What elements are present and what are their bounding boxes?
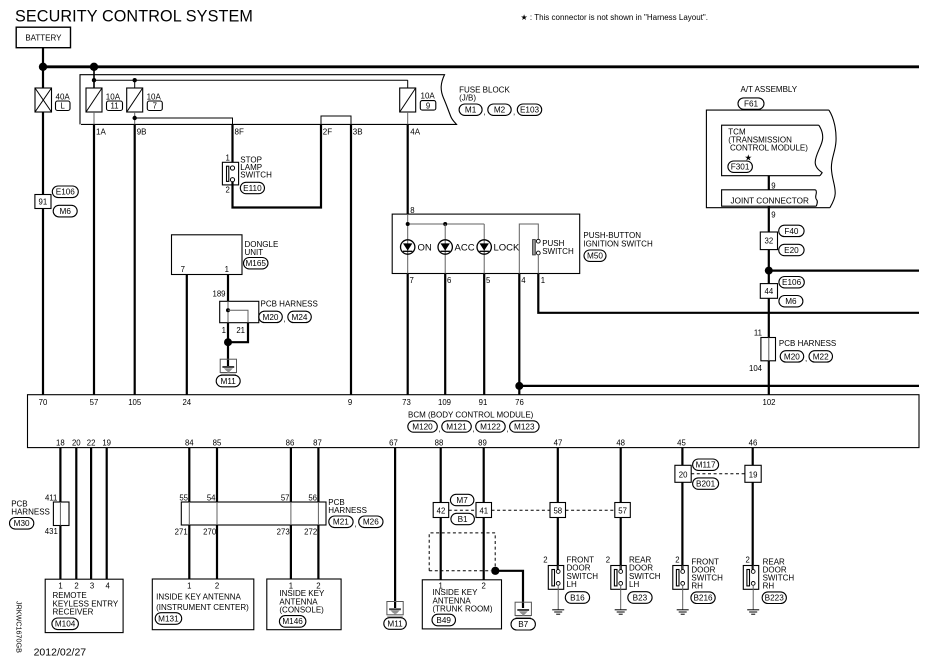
- svg-text:B23: B23: [633, 593, 648, 602]
- connector M2: [488, 104, 511, 115]
- connector F61: [738, 98, 764, 109]
- inside key antenna trunk room B49: [422, 580, 501, 629]
- svg-text:41: 41: [479, 507, 488, 516]
- wire fuse feed drop into block: [93, 67, 95, 88]
- svg-text:9: 9: [771, 181, 775, 190]
- svg-text:11: 11: [110, 102, 118, 111]
- connectors M120 M121 M122 M123: [408, 421, 438, 432]
- svg-text:1: 1: [222, 326, 226, 335]
- svg-text:7: 7: [410, 276, 414, 285]
- remote keyless entry receiver M104: [45, 579, 123, 632]
- svg-text:2: 2: [215, 581, 219, 590]
- svg-text:7: 7: [181, 265, 185, 274]
- svg-text:F40: F40: [784, 227, 799, 236]
- wire shield to ground B7: [495, 571, 523, 608]
- svg-text:M6: M6: [60, 207, 72, 216]
- wire pin6 to BCM 109: [444, 274, 446, 395]
- svg-text:SWITCH: SWITCH: [240, 170, 272, 179]
- svg-text:A/T ASSEMBLY: A/T ASSEMBLY: [741, 85, 798, 94]
- svg-text:M123: M123: [514, 422, 535, 431]
- svg-text:20: 20: [679, 470, 688, 479]
- wire dongle pin1 to pcb harness: [227, 275, 229, 302]
- wire pcb pin1 down: [227, 323, 229, 343]
- svg-text:46: 46: [749, 438, 758, 447]
- pcb harness M20 M24: [220, 299, 318, 323]
- svg-text:11: 11: [754, 329, 762, 338]
- connector 57: [615, 503, 631, 518]
- dongle unit M165: [172, 235, 279, 275]
- svg-text:M30: M30: [14, 519, 30, 528]
- svg-text:M1: M1: [465, 106, 477, 115]
- svg-text:,: ,: [513, 108, 515, 117]
- node junction battery-fusible: [39, 63, 47, 71]
- connector F301: [728, 161, 753, 172]
- wire battery feed horizontal: [43, 65, 919, 68]
- indicator ON: [401, 240, 415, 254]
- connector 19: [745, 465, 761, 482]
- svg-text:9: 9: [348, 398, 352, 407]
- svg-text:M121: M121: [446, 422, 467, 431]
- connector B1: [451, 513, 475, 524]
- svg-text:48: 48: [616, 438, 625, 447]
- svg-text:(CONSOLE): (CONSOLE): [279, 606, 324, 615]
- wire stop lamp switch to 2F: [233, 124, 322, 207]
- svg-text:PCB HARNESS: PCB HARNESS: [261, 299, 318, 308]
- wire BCM 67 to ground: [394, 448, 396, 608]
- svg-text:57: 57: [618, 507, 627, 516]
- svg-text:M24: M24: [292, 313, 308, 322]
- connector 42: [433, 503, 449, 518]
- wire bus to fuse 7 top: [134, 80, 136, 88]
- svg-text:9: 9: [771, 210, 775, 219]
- svg-text:E103: E103: [520, 106, 540, 115]
- wire BCM 47 to connector 58: [557, 448, 559, 503]
- wire 44 to pcb harness: [768, 298, 770, 337]
- svg-text:104: 104: [749, 364, 763, 373]
- dashed link 41-58: [492, 509, 551, 511]
- svg-text:2: 2: [543, 556, 547, 565]
- svg-text:B223: B223: [765, 594, 785, 603]
- svg-text:JRKWC1670GB: JRKWC1670GB: [15, 601, 24, 653]
- svg-text:,: ,: [484, 108, 486, 117]
- wire pin7 to BCM 73: [407, 274, 409, 395]
- svg-text:IGNITION SWITCH: IGNITION SWITCH: [583, 240, 653, 249]
- wire pin1 down: [538, 274, 919, 313]
- svg-text:1: 1: [187, 581, 191, 590]
- inside key antenna console M146: [267, 579, 341, 630]
- svg-text:F61: F61: [744, 100, 759, 109]
- svg-text:47: 47: [554, 438, 563, 447]
- wire BCM 45 to connector 20: [681, 448, 683, 466]
- wire bus to fuse 9 top: [407, 80, 409, 88]
- wire fuse 11 out: [93, 112, 95, 124]
- wire BCM 18 to pcb harness M30: [59, 448, 61, 502]
- node junction pin4 line: [515, 382, 523, 390]
- dashed link 20-19: [691, 473, 745, 475]
- svg-text:24: 24: [182, 398, 191, 407]
- ground M11 (BCM 67): [384, 602, 407, 630]
- svg-text:10A: 10A: [106, 92, 121, 101]
- wire pcb harness to BCM 102: [768, 361, 770, 395]
- svg-text:22: 22: [87, 438, 96, 447]
- joint connector: [722, 190, 818, 206]
- svg-text:10A: 10A: [147, 92, 162, 101]
- svg-text:M11: M11: [387, 619, 403, 628]
- svg-text:INSIDE KEY ANTENNA: INSIDE KEY ANTENNA: [156, 592, 241, 601]
- svg-text:8: 8: [410, 206, 414, 215]
- wire battery drop: [42, 48, 44, 88]
- svg-text:56: 56: [308, 493, 317, 502]
- wire 57 to rear door switch LH: [620, 518, 622, 570]
- svg-text:1: 1: [225, 265, 229, 274]
- svg-text:B49: B49: [436, 616, 451, 625]
- fuse 10A 11: [86, 88, 123, 112]
- node bus dot fuse 11: [92, 78, 96, 82]
- svg-text:(J/B): (J/B): [459, 94, 476, 103]
- svg-text:2: 2: [746, 556, 750, 565]
- wire 8F to stop lamp switch: [231, 124, 233, 166]
- svg-text:M7: M7: [456, 496, 468, 505]
- wire joint connector to 32: [768, 206, 770, 232]
- svg-text:55: 55: [179, 493, 188, 502]
- wire to ground M11: [227, 342, 229, 366]
- stop lamp switch E110: [222, 153, 272, 194]
- svg-text:M20: M20: [784, 352, 800, 361]
- svg-text:M104: M104: [55, 620, 76, 629]
- wire M30 to RKE pin 1: [59, 526, 61, 580]
- svg-text:88: 88: [435, 438, 444, 447]
- wire fuse bus inside block: [94, 79, 408, 81]
- svg-text:57: 57: [281, 493, 290, 502]
- svg-text:HARNESS: HARNESS: [328, 506, 367, 515]
- svg-text:B216: B216: [693, 594, 713, 603]
- wire BCM 20 to RKE pin 2: [75, 448, 77, 580]
- svg-text:PCB HARNESS: PCB HARNESS: [779, 339, 836, 348]
- wire BCM 48 to connector 57: [620, 448, 622, 503]
- svg-text:32: 32: [765, 237, 774, 246]
- svg-text:189: 189: [212, 289, 225, 298]
- svg-text:87: 87: [313, 438, 322, 447]
- svg-text:SWITCH: SWITCH: [542, 247, 574, 256]
- svg-text:4A: 4A: [410, 127, 420, 136]
- svg-text:91: 91: [39, 198, 48, 207]
- wire 8F feed inside block: [135, 118, 233, 124]
- svg-text:,: ,: [506, 424, 508, 433]
- svg-text:2F: 2F: [323, 127, 332, 136]
- svg-text:LH: LH: [567, 580, 577, 589]
- node dot fuse 7 out: [133, 116, 137, 120]
- indicator ACC: [438, 240, 452, 254]
- svg-text:BCM (BODY CONTROL MODULE): BCM (BODY CONTROL MODULE): [408, 410, 534, 419]
- rear door switch LH B23: [606, 556, 661, 615]
- TCM box: [722, 125, 823, 176]
- svg-text:B1: B1: [458, 515, 468, 524]
- wire 58 to front door switch LH: [557, 518, 559, 570]
- wire dongle pin7 to BCM 24: [186, 275, 188, 395]
- pcb harness M20 M22: [761, 338, 836, 364]
- BCM body control module box: [28, 395, 920, 448]
- svg-text:M2: M2: [494, 106, 506, 115]
- svg-text:SECURITY CONTROL SYSTEM: SECURITY CONTROL SYSTEM: [15, 8, 253, 26]
- fusible link 40A L: [35, 88, 70, 112]
- svg-text:10A: 10A: [421, 91, 436, 100]
- svg-text:E106: E106: [782, 278, 802, 287]
- rear door switch RH B223: [743, 556, 794, 615]
- svg-text:BATTERY: BATTERY: [25, 33, 62, 42]
- svg-text:89: 89: [478, 438, 487, 447]
- wire BCM 87 to antenna: [317, 448, 319, 502]
- svg-text:2: 2: [482, 581, 486, 590]
- svg-text:LH: LH: [629, 580, 639, 589]
- svg-text:105: 105: [128, 398, 142, 407]
- svg-text:19: 19: [102, 438, 111, 447]
- svg-text:ACC: ACC: [455, 242, 475, 253]
- ground B7: [511, 602, 535, 630]
- svg-text:L: L: [61, 102, 66, 111]
- wire TCM branch right: [769, 270, 919, 272]
- dashed link 58-57: [566, 509, 615, 511]
- svg-text:E110: E110: [243, 184, 262, 193]
- wire 3B to BCM 9: [350, 124, 352, 394]
- svg-text:7: 7: [153, 102, 157, 111]
- push switch: [519, 224, 538, 274]
- svg-text:54: 54: [207, 493, 216, 502]
- svg-text:CONTROL MODULE): CONTROL MODULE): [730, 144, 808, 153]
- svg-text:70: 70: [39, 398, 48, 407]
- indicator LOCK: [477, 240, 491, 254]
- pcb harness M21 M26: [181, 498, 383, 529]
- svg-text:73: 73: [402, 398, 411, 407]
- wire connector 91 to BCM pin 70: [42, 209, 44, 395]
- svg-text:M120: M120: [412, 422, 433, 431]
- svg-text:4: 4: [106, 581, 111, 590]
- wire fuse 9 out: [407, 112, 409, 124]
- svg-text:271: 271: [175, 528, 188, 537]
- svg-text:2: 2: [606, 556, 610, 565]
- fuse 10A 7: [127, 88, 163, 112]
- svg-text:M6: M6: [785, 297, 797, 306]
- svg-text:M165: M165: [245, 259, 266, 268]
- svg-text:6: 6: [447, 276, 451, 285]
- svg-text:JOINT CONNECTOR: JOINT CONNECTOR: [731, 196, 809, 205]
- svg-text:8F: 8F: [235, 127, 244, 136]
- svg-text:M11: M11: [221, 377, 237, 386]
- svg-text:1: 1: [58, 581, 62, 590]
- svg-text:19: 19: [749, 470, 758, 479]
- svg-text:109: 109: [438, 398, 451, 407]
- svg-text:9: 9: [426, 101, 430, 110]
- svg-text:85: 85: [213, 438, 222, 447]
- svg-text:M20: M20: [263, 313, 279, 322]
- svg-text:2: 2: [675, 556, 679, 565]
- svg-text:273: 273: [277, 528, 290, 537]
- connector 58: [550, 503, 566, 518]
- node junction fuse feed: [90, 63, 98, 71]
- wire BCM 84 to antenna: [188, 448, 190, 502]
- svg-text:M21: M21: [333, 518, 349, 527]
- svg-text:57: 57: [90, 398, 99, 407]
- svg-text:M22: M22: [813, 352, 829, 361]
- svg-text:B201: B201: [696, 480, 716, 489]
- svg-text:4: 4: [521, 276, 526, 285]
- svg-text:M26: M26: [363, 518, 379, 527]
- wire pin5 to BCM 91: [483, 274, 485, 395]
- svg-text:91: 91: [479, 398, 488, 407]
- svg-text:411: 411: [45, 493, 57, 502]
- svg-text:9B: 9B: [137, 127, 147, 136]
- svg-text:3B: 3B: [353, 127, 363, 136]
- wire 42 to antenna pin1: [440, 518, 442, 580]
- svg-text:E106: E106: [56, 188, 76, 197]
- node junction dongle ground: [224, 338, 232, 346]
- svg-text:1: 1: [541, 276, 545, 285]
- svg-text:42: 42: [437, 507, 446, 516]
- wire BCM 89 to connector 41: [483, 448, 485, 503]
- svg-text:44: 44: [765, 287, 774, 296]
- connector 32 F40 E20: [760, 225, 804, 256]
- svg-text:M146: M146: [282, 617, 303, 626]
- connector B201: [693, 478, 719, 489]
- dashed link 42-41: [449, 509, 476, 511]
- wire BCM 46 to connector 19: [752, 448, 754, 466]
- connector E103: [517, 104, 541, 115]
- svg-text:18: 18: [56, 438, 65, 447]
- svg-text:(TRUNK ROOM): (TRUNK ROOM): [433, 605, 493, 614]
- svg-text:40A: 40A: [56, 92, 71, 101]
- wire 32 to 44: [768, 250, 770, 284]
- svg-text:F301: F301: [731, 163, 750, 172]
- connector 44 E106 M6: [760, 277, 804, 307]
- svg-text:,: ,: [284, 315, 286, 324]
- svg-text:3: 3: [90, 581, 94, 590]
- node bus dot fuse 7: [133, 78, 137, 82]
- wire 20 to front door switch RH: [681, 482, 683, 569]
- svg-text:HARNESS: HARNESS: [11, 507, 50, 516]
- svg-text:1: 1: [225, 153, 229, 162]
- svg-text:2: 2: [225, 186, 229, 195]
- ground M11 (dongle): [216, 359, 240, 387]
- svg-text:272: 272: [304, 528, 317, 537]
- connector M117: [693, 459, 719, 470]
- svg-text:RH: RH: [763, 581, 775, 590]
- wire BCM 19 to RKE pin 4: [106, 448, 108, 580]
- svg-text:UNIT: UNIT: [245, 248, 264, 257]
- svg-text:ON: ON: [418, 242, 432, 253]
- svg-text:76: 76: [515, 398, 524, 407]
- svg-text:M131: M131: [158, 614, 179, 623]
- wire 9B to BCM 105: [134, 124, 136, 394]
- svg-text:B7: B7: [518, 620, 528, 629]
- inside key antenna instrument center M131: [152, 579, 254, 630]
- svg-text:B16: B16: [570, 593, 585, 602]
- svg-text:E20: E20: [784, 246, 799, 255]
- svg-text:86: 86: [286, 438, 295, 447]
- node junction TCM branch: [765, 267, 773, 275]
- svg-text:M117: M117: [696, 461, 716, 470]
- svg-text:LOCK: LOCK: [494, 242, 521, 253]
- svg-text:M122: M122: [480, 422, 501, 431]
- fuse 10A 9: [400, 88, 436, 112]
- connector 41: [476, 503, 492, 518]
- front door switch RH B216: [673, 556, 723, 615]
- connector M7: [450, 494, 474, 505]
- svg-text:67: 67: [389, 438, 398, 447]
- wire 4A to ignition pin 8: [407, 124, 409, 214]
- wire 41 to antenna pin2: [483, 518, 485, 580]
- wire BCM 86 to antenna: [290, 448, 292, 502]
- A/T assembly box: [706, 110, 836, 208]
- svg-text:5: 5: [486, 276, 491, 285]
- svg-text:★ : This connector is not show: ★ : This connector is not shown in "Harn…: [521, 13, 708, 22]
- svg-text:84: 84: [185, 438, 194, 447]
- connector M1: [459, 104, 482, 115]
- svg-text:2: 2: [74, 581, 78, 590]
- fuse block J/B outline: [80, 75, 457, 125]
- wire BCM 85 to antenna: [216, 448, 218, 502]
- svg-text:,: ,: [439, 424, 441, 433]
- connector 91 E106 M6: [35, 186, 78, 217]
- wire TCM to joint connector: [768, 176, 770, 190]
- pcb harness M30: [10, 499, 70, 529]
- svg-text:1A: 1A: [96, 127, 106, 136]
- svg-text:270: 270: [203, 528, 217, 537]
- svg-text:58: 58: [553, 507, 562, 516]
- wire BCM 88 to connector 42: [440, 448, 442, 503]
- wire pin4 branch right: [519, 385, 919, 387]
- wire 2F-3B link inside block: [321, 116, 351, 124]
- push-button ignition switch M50: [392, 206, 580, 285]
- svg-text:20: 20: [72, 438, 81, 447]
- wire 19 to rear door switch RH: [752, 482, 754, 569]
- svg-text:RH: RH: [691, 581, 703, 590]
- svg-text:,: ,: [473, 424, 475, 433]
- svg-text:,: ,: [805, 354, 807, 363]
- front door switch LH B16: [543, 556, 598, 615]
- wire BCM 22 to RKE pin 3: [90, 448, 92, 580]
- wire pin4 to BCM 76: [518, 274, 520, 395]
- wire pcb pin21 loop: [228, 323, 248, 343]
- connector M50: [584, 250, 606, 261]
- wire 1A to BCM 57: [93, 124, 95, 394]
- svg-text:(INSTRUMENT CENTER): (INSTRUMENT CENTER): [156, 603, 249, 612]
- svg-text:M50: M50: [587, 252, 603, 261]
- battery: [16, 27, 70, 48]
- svg-text:45: 45: [677, 438, 686, 447]
- node shield junction: [491, 567, 499, 575]
- svg-text:2012/02/27: 2012/02/27: [34, 647, 87, 659]
- svg-text:,: ,: [355, 520, 357, 529]
- svg-text:21: 21: [236, 326, 245, 335]
- svg-text:102: 102: [762, 398, 775, 407]
- connector 20: [675, 465, 691, 482]
- shield dashed box: [429, 533, 495, 571]
- wire fuse 7 out: [134, 112, 136, 124]
- svg-text:431: 431: [45, 527, 58, 536]
- svg-text:RECEIVER: RECEIVER: [53, 607, 94, 616]
- wire fusible link to connector 91: [42, 112, 44, 195]
